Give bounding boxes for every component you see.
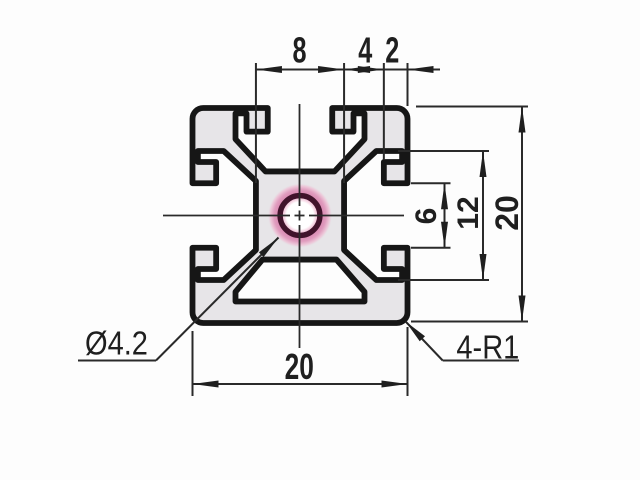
corner label text 4-R1 (456, 329, 519, 366)
extension line dim 4 right / dim 2 left (383, 63, 385, 160)
leader arrowhead at corner (406, 322, 425, 342)
dimension line 12 (482, 151, 484, 280)
extension line bottom dim 20 right (407, 327, 409, 396)
extension line dim 6 bottom (411, 247, 451, 249)
arrowhead dim 4 right (358, 66, 384, 73)
extension line dim 2 right (407, 63, 409, 106)
leader underline for hole label (78, 360, 156, 362)
svg-text:4-R1: 4-R1 (456, 329, 519, 366)
leader arrowhead at center hole (259, 238, 279, 258)
leader line to center hole (156, 238, 279, 361)
horizontal centerline center dash (295, 215, 305, 217)
extension line dim 8 right / dim 4 left (343, 63, 345, 183)
arrowhead right dim 20 bottom (519, 296, 526, 322)
hole label text Ø4.2 (85, 325, 148, 362)
horizontal centerline right segment (309, 215, 404, 217)
svg-text:12: 12 (452, 196, 485, 229)
arrowhead dim 6 top (441, 183, 448, 209)
extension line right dim 20 top (416, 106, 528, 108)
dimension line 4 (344, 69, 384, 71)
extension line dim 8 left (255, 63, 257, 183)
arrowhead dim 12 bottom (480, 254, 487, 280)
dimension line 2 (384, 69, 408, 71)
vertical centerline lower segment (299, 225, 301, 348)
svg-text:8: 8 (292, 30, 306, 71)
leader line to corner radius (406, 322, 443, 361)
extrusion profile cross-section body (20x20 T-slot, with slot cavities and bottom trapezoid cavity and center hole) (193, 108, 408, 323)
vertical centerline upper segment (299, 104, 301, 206)
arrowhead dim 4 left (344, 66, 370, 73)
dim text bottom 20 (285, 346, 314, 387)
svg-text:20: 20 (285, 346, 314, 387)
dimension line right 20 (521, 107, 523, 322)
arrowhead dim 8 right (318, 66, 344, 73)
dimension line 6 (444, 183, 446, 248)
vertical centerline center dash (299, 211, 301, 221)
extension line dim 12 bottom (398, 279, 489, 281)
dimension line 2 outside tail (408, 69, 441, 71)
dimension line 8 (256, 69, 344, 71)
horizontal centerline left segment (163, 215, 290, 217)
arrowhead dim 8 left (256, 66, 282, 73)
dim text 8 (292, 30, 306, 71)
dimension line bottom 20 (193, 383, 408, 385)
extension line right dim 20 bottom (411, 321, 528, 323)
pink highlight glow on center hole (268, 184, 332, 248)
extension line dim 12 top (398, 150, 489, 152)
svg-text:4: 4 (358, 30, 373, 71)
svg-text:6: 6 (410, 208, 443, 225)
extension line dim 6 top (411, 182, 451, 184)
svg-text:Ø4.2: Ø4.2 (85, 325, 148, 362)
arrowhead right dim 20 top (519, 107, 526, 133)
arrowhead dim 2 outside (408, 66, 434, 73)
dim text 2 (385, 30, 399, 71)
arrowhead bottom dim 20 right (382, 381, 408, 388)
arrowhead dim 12 top (480, 151, 487, 177)
center hole ring (280, 196, 320, 236)
dim text 4 (358, 30, 373, 71)
arrowhead bottom dim 20 left (193, 381, 219, 388)
arrowhead dim 6 bottom (441, 222, 448, 248)
svg-text:20: 20 (489, 195, 525, 231)
svg-text:2: 2 (385, 30, 399, 71)
leader underline for corner label (443, 360, 519, 362)
extension line bottom dim 20 left (192, 331, 194, 396)
